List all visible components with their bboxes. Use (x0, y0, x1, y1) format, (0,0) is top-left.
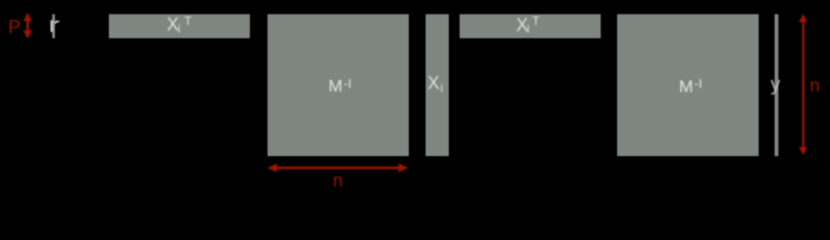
svg-text:T: T (184, 14, 192, 28)
svg-text:i: i (440, 81, 443, 95)
label r on result vector (shoulder arm) (55, 21, 58, 23)
label X_i^T on second block (516, 14, 540, 36)
matrix M^-1 (second, large n-by-n block) (617, 14, 759, 156)
matrix X_i^T (first, wide p-by-n block) (109, 14, 250, 38)
label X_i on tall block (428, 73, 444, 95)
svg-text:M: M (679, 77, 693, 96)
svg-text:-I: -I (344, 76, 352, 91)
matrix M^-1 (first, large n-by-n block) (268, 14, 409, 156)
dimension arrow n (horizontal double-headed, under first M^-1) (267, 164, 408, 173)
svg-text:P: P (8, 16, 20, 37)
vector y (thin n-vector bar) (775, 14, 779, 156)
matrix X_i (tall n-by-p block) (426, 14, 449, 156)
svg-text:y: y (771, 75, 781, 96)
label M^-1 on second large block (679, 76, 702, 96)
matrix X_i^T (second, wide p-by-n block) (460, 14, 601, 38)
svg-text:n: n (810, 75, 820, 95)
result vector bar (thin p-vector at left) (52, 14, 55, 38)
dimension arrow p (vertical double-headed) (23, 13, 32, 39)
svg-text:T: T (532, 14, 540, 28)
label M^-1 on first large block (328, 76, 351, 96)
label X_i^T on first block (167, 14, 193, 36)
svg-text:-I: -I (694, 76, 702, 91)
label r on result vector (stem) (51, 20, 53, 32)
dimension arrow n (vertical double-headed, right side) (799, 14, 808, 155)
svg-text:n: n (333, 171, 343, 191)
svg-text:i: i (178, 22, 181, 36)
svg-text:i: i (527, 22, 530, 36)
svg-text:M: M (328, 77, 342, 96)
svg-text:X: X (428, 73, 440, 93)
